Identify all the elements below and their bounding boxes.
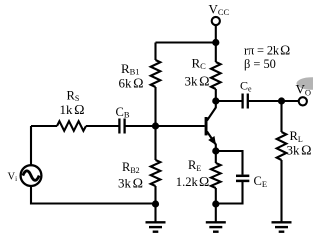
resistor RE: [211, 163, 221, 188]
resistor RS: [57, 121, 86, 131]
node RB2 ground junction: [152, 200, 159, 207]
wire RB1 bottom to base node: [154, 87, 156, 126]
wire CE branch bottom: [216, 182, 243, 204]
wire RB2 bottom to ground node: [154, 186, 156, 204]
capacitor Ce: [243, 94, 248, 109]
ground G1: [146, 222, 166, 231]
wire Vcc node to RC top: [215, 43, 217, 63]
wire CE branch top: [216, 151, 243, 175]
resistor RL: [277, 132, 287, 160]
wire base node to RB2 top: [154, 126, 156, 160]
svg-text:1.2kΩ: 1.2kΩ: [176, 174, 210, 189]
scan artifact gray blob: [297, 77, 320, 90]
wire CB to transistor base: [125, 125, 205, 127]
transistor Q1 emitter arrow: [208, 136, 216, 145]
node output junction: [278, 97, 285, 104]
wire ground stem middle: [215, 204, 217, 222]
node RE ground junction: [212, 200, 219, 207]
node Vcc junction: [212, 39, 219, 46]
svg-text:β = 50: β = 50: [244, 57, 276, 71]
node base junction: [152, 122, 159, 129]
svg-text:3kΩ: 3kΩ: [185, 74, 210, 90]
resistor RB2: [151, 160, 161, 186]
source Vi sine symbol: [23, 171, 39, 181]
terminal Vo: [299, 97, 307, 105]
terminal Vcc: [212, 17, 220, 25]
wire RE bottom to ground node: [215, 188, 217, 204]
wire ground stem left: [154, 204, 156, 222]
svg-text:6kΩ: 6kΩ: [119, 76, 144, 92]
wire Ce right plate to Vo: [248, 100, 298, 102]
capacitor CB: [119, 119, 124, 134]
transistor Q1 base bar: [205, 117, 208, 135]
wire Rs left: [31, 125, 57, 127]
wire output node to RL top: [280, 101, 282, 132]
transistor Q1 emitter lead: [207, 132, 216, 152]
svg-text:1kΩ: 1kΩ: [60, 102, 85, 118]
ground G2: [206, 222, 226, 231]
wire Vi top: [30, 126, 32, 165]
resistor RC: [211, 62, 221, 89]
wire emitter node to RE top: [215, 148, 217, 163]
wire Vcc stem: [215, 25, 217, 42]
wire source bottom rail: [31, 186, 156, 203]
wire Rs to CB: [86, 125, 119, 127]
wire RL bottom to ground: [280, 160, 282, 222]
resistor RB1: [151, 60, 161, 87]
svg-text:3kΩ: 3kΩ: [287, 143, 312, 159]
wire RC bottom to collector node: [215, 89, 217, 101]
svg-text:rπ = 2kΩ: rπ = 2kΩ: [244, 43, 290, 58]
node emitter junction: [212, 147, 219, 154]
source Vi: [21, 165, 42, 186]
capacitor CE: [236, 176, 249, 181]
svg-text:3kΩ: 3kΩ: [118, 175, 143, 191]
ground G3: [272, 222, 292, 231]
wire top rail from RB1 to Vcc node: [156, 41, 216, 43]
transistor Q1 collector lead: [207, 101, 216, 121]
wire collector node to Ce left plate: [216, 100, 242, 102]
node collector junction: [212, 97, 219, 104]
wire RB1 top drop: [154, 43, 156, 61]
